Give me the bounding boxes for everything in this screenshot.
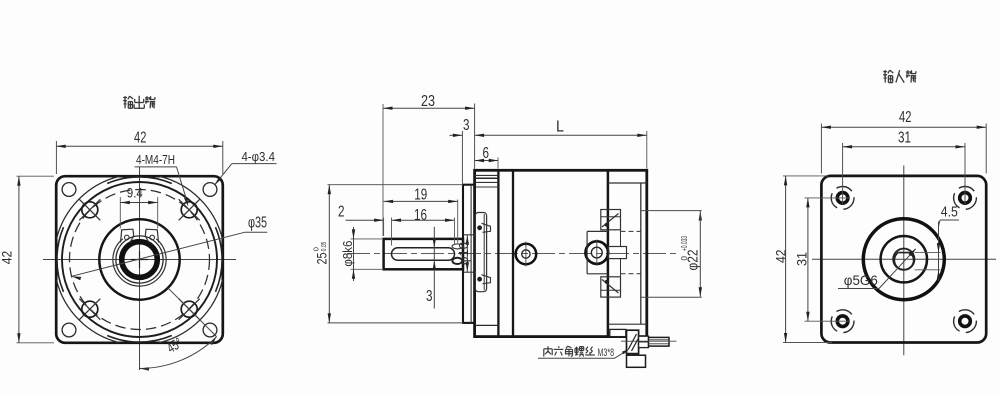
- svg-text:3: 3: [463, 117, 470, 134]
- svg-text:25: 25: [314, 252, 330, 264]
- svg-text:42: 42: [899, 109, 911, 126]
- svg-text:4-M4-7H: 4-M4-7H: [136, 153, 175, 167]
- svg-text:42: 42: [0, 251, 14, 265]
- svg-text:9.4: 9.4: [127, 185, 143, 201]
- svg-text:3: 3: [426, 288, 433, 305]
- svg-text:φ10: φ10: [457, 242, 471, 265]
- svg-text:M3*8: M3*8: [598, 347, 615, 359]
- svg-text:φ8k6: φ8k6: [340, 241, 355, 267]
- svg-text:0: 0: [312, 247, 321, 251]
- svg-text:31: 31: [898, 130, 911, 147]
- svg-text:2: 2: [338, 203, 345, 220]
- svg-text:4.5: 4.5: [941, 203, 958, 220]
- svg-text:φ35: φ35: [248, 215, 267, 232]
- svg-text:16: 16: [414, 207, 427, 224]
- svg-text:31: 31: [794, 252, 810, 266]
- svg-text:4-φ3.4: 4-φ3.4: [241, 150, 275, 164]
- svg-text:23: 23: [421, 93, 435, 110]
- svg-text:L: L: [556, 119, 564, 136]
- svg-text:19: 19: [414, 187, 427, 204]
- svg-text:6: 6: [483, 145, 490, 162]
- svg-text:+0.033: +0.033: [680, 236, 689, 251]
- svg-text:42: 42: [134, 129, 146, 146]
- svg-text:0: 0: [680, 256, 689, 261]
- svg-text:42: 42: [773, 249, 789, 263]
- svg-text:φ5G6: φ5G6: [844, 272, 878, 288]
